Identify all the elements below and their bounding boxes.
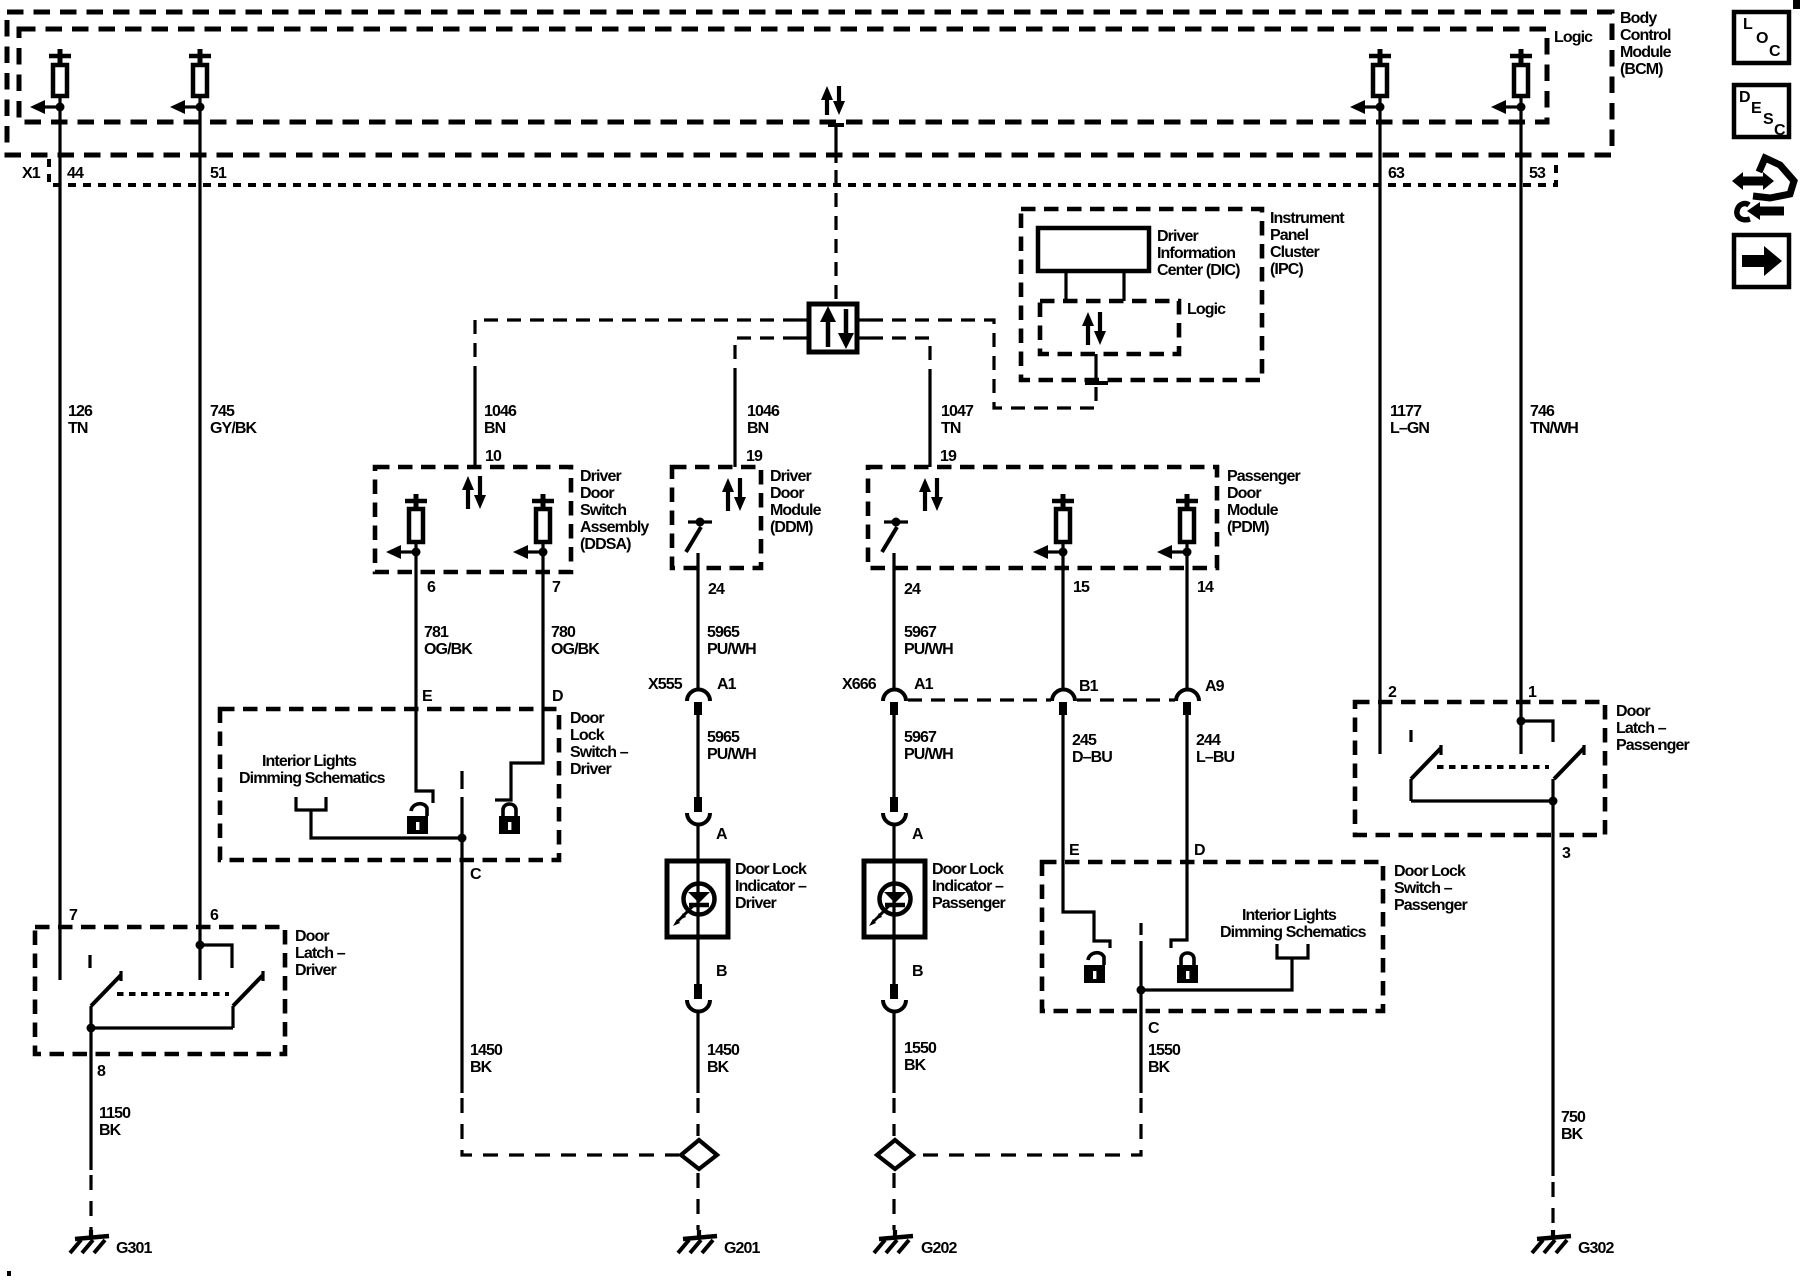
svg-text:S: S	[1763, 111, 1774, 128]
BCM driver output 4 (pin 53)	[1491, 49, 1532, 114]
wire 245 D-BU upper (PDM 15 to B1)	[1063, 552, 1112, 766]
svg-text:Indicator –: Indicator –	[932, 878, 1004, 895]
svg-text:24: 24	[708, 581, 725, 598]
Driver Information Center (DIC) display	[1038, 228, 1240, 279]
latch passenger contact stub	[1409, 730, 1412, 742]
IPC Logic dashed box	[1040, 301, 1226, 354]
passenger switch D contact (lock)	[1171, 862, 1187, 948]
svg-text:750: 750	[1561, 1109, 1586, 1126]
wire 1450 BK (switch C to splice)	[462, 860, 679, 1155]
svg-text:Module: Module	[1227, 502, 1279, 519]
svg-text:BK: BK	[904, 1057, 927, 1074]
closed padlock (passenger lock)	[1177, 953, 1198, 983]
BCM driver output 2 (pin 51)	[170, 49, 211, 114]
svg-text:BN: BN	[747, 420, 769, 437]
ground lead G201	[696, 1173, 699, 1230]
svg-text:D: D	[1739, 89, 1750, 106]
serial data junction box	[797, 304, 869, 352]
svg-text:G301: G301	[116, 1240, 153, 1257]
ground G202	[874, 1230, 958, 1257]
svg-text:44: 44	[67, 165, 84, 182]
latch driver pin 6 lead with tap	[196, 907, 233, 980]
wire 245 D-BU lower (B1 to switch E)	[1061, 715, 1064, 862]
svg-text:GY/BK: GY/BK	[210, 420, 258, 437]
svg-text:Door Lock: Door Lock	[735, 861, 807, 878]
svg-text:1550: 1550	[904, 1040, 937, 1057]
serial data wire from BCM logic	[828, 125, 844, 302]
DDM lock switch	[686, 518, 712, 569]
svg-text:3: 3	[1562, 845, 1571, 862]
svg-text:(IPC): (IPC)	[1270, 261, 1303, 278]
svg-text:D: D	[552, 688, 563, 705]
svg-text:Center (DIC): Center (DIC)	[1157, 262, 1240, 279]
svg-text:PU/WH: PU/WH	[707, 641, 756, 658]
wire 781 OG/BK (DDSA 6 to switch E)	[416, 552, 473, 709]
svg-text:Driver: Driver	[1157, 228, 1199, 245]
driver switch D contact (lock)	[495, 709, 543, 800]
svg-text:G201: G201	[724, 1240, 761, 1257]
svg-text:L–BU: L–BU	[1196, 749, 1235, 766]
svg-text:Latch –: Latch –	[295, 945, 346, 962]
svg-text:244: 244	[1196, 732, 1221, 749]
serial data bus to PDM (1047 TN)	[869, 338, 974, 467]
svg-text:Passenger: Passenger	[1227, 468, 1301, 485]
Door Lock Switch - Passenger dashed box	[1042, 862, 1468, 1011]
DIC to IPC logic stubs	[1066, 271, 1124, 301]
svg-text:Door: Door	[770, 485, 804, 502]
schematic navigation squiggle icon	[1732, 158, 1794, 220]
page corner dot	[7, 1271, 11, 1276]
wire BCM 63 to door latch passenger pin 2	[1378, 107, 1381, 702]
svg-text:BN: BN	[484, 420, 506, 437]
latch mechanical link (driver)	[117, 992, 229, 996]
Door Latch - Passenger dashed box	[1355, 702, 1690, 835]
svg-text:245: 245	[1072, 732, 1097, 749]
svg-text:(DDM): (DDM)	[770, 519, 813, 536]
svg-text:Latch –: Latch –	[1616, 720, 1667, 737]
svg-text:Switch: Switch	[580, 502, 626, 519]
svg-text:5967: 5967	[904, 729, 937, 746]
svg-text:D: D	[1194, 842, 1205, 859]
Door Lock Indicator - Driver	[667, 861, 807, 937]
svg-text:5965: 5965	[707, 624, 740, 641]
X1 connector strip	[22, 159, 1556, 185]
svg-text:1550: 1550	[1148, 1042, 1181, 1059]
wire BCM 53 to door latch passenger pin 1	[1519, 107, 1522, 702]
svg-text:BK: BK	[707, 1059, 730, 1076]
connector X666 pin A1	[842, 676, 934, 715]
PDM driver output 2 (pin 14)	[1157, 494, 1198, 559]
svg-text:Door: Door	[570, 710, 604, 727]
svg-text:1046: 1046	[484, 403, 517, 420]
DDSA driver output 2 (pin 7)	[513, 494, 554, 559]
wire BCM 44 to door latch driver pin 7	[58, 107, 61, 927]
svg-text:Logic: Logic	[1187, 301, 1226, 318]
ground lead G202	[892, 1173, 895, 1230]
wire label 745 GY/BK	[210, 403, 258, 437]
BCM serial data bidirectional arrows	[821, 86, 845, 115]
svg-text:8: 8	[97, 1063, 106, 1080]
svg-text:OG/BK: OG/BK	[424, 641, 473, 658]
interior lights dimming note (passenger)	[1141, 907, 1367, 990]
svg-text:G202: G202	[921, 1240, 958, 1257]
IPC logic serial arrows	[1082, 312, 1106, 345]
PDM driver output 1 (pin 15)	[1033, 494, 1074, 559]
connector alignment dashed line X666	[908, 698, 1051, 701]
svg-text:Door Lock: Door Lock	[1394, 863, 1466, 880]
svg-text:BK: BK	[470, 1059, 493, 1076]
svg-text:746: 746	[1530, 403, 1555, 420]
svg-text:BK: BK	[99, 1122, 122, 1139]
svg-text:Module: Module	[1620, 44, 1672, 61]
connector A (passenger indicator)	[883, 797, 924, 843]
latch passenger pin 2 lead	[1380, 684, 1397, 754]
wire 244 L-BU lower (A9 to switch D)	[1185, 715, 1188, 862]
latch driver switch right	[233, 971, 263, 1028]
IPC logic output stub	[1085, 354, 1108, 383]
svg-text:10: 10	[485, 448, 502, 465]
svg-text:Driver: Driver	[735, 895, 777, 912]
svg-text:PU/WH: PU/WH	[904, 746, 953, 763]
svg-text:Lock: Lock	[570, 727, 605, 744]
svg-text:B: B	[912, 963, 923, 980]
wire 5967 PU/WH upper (PDM 24 to X666)	[894, 568, 953, 689]
DDSA driver output 1 (pin 6)	[386, 494, 427, 559]
svg-text:OG/BK: OG/BK	[551, 641, 600, 658]
driver switch E contact (unlock)	[416, 709, 433, 803]
svg-text:E: E	[422, 688, 433, 705]
wire 1550 BK (switch C to splice)	[911, 1011, 1181, 1155]
LOC legend icon	[1734, 12, 1789, 63]
svg-text:PU/WH: PU/WH	[904, 641, 953, 658]
open padlock (passenger unlock)	[1084, 953, 1105, 983]
ground G201	[678, 1230, 761, 1257]
wire label 126 TN	[68, 403, 93, 437]
latch driver pin 7 lead	[60, 907, 78, 980]
PDM lock switch	[882, 518, 908, 569]
svg-text:C: C	[1148, 1020, 1160, 1037]
svg-text:Door Lock: Door Lock	[932, 861, 1004, 878]
svg-text:Passenger: Passenger	[1616, 737, 1690, 754]
svg-text:C: C	[470, 866, 482, 883]
svg-text:Interior Lights: Interior Lights	[262, 753, 357, 770]
serial data bus to IPC	[869, 320, 1096, 408]
ground G302	[1532, 1230, 1615, 1257]
svg-text:Panel: Panel	[1270, 227, 1309, 244]
svg-text:O: O	[1756, 30, 1768, 47]
svg-text:1177: 1177	[1390, 403, 1422, 420]
svg-text:C: C	[1769, 43, 1781, 60]
wire label 1177 L-GN	[1390, 403, 1429, 437]
svg-text:780: 780	[551, 624, 576, 641]
svg-text:Control: Control	[1620, 27, 1671, 44]
wire BCM 51 to door latch driver pin 6	[198, 107, 201, 927]
svg-text:1: 1	[1528, 684, 1537, 701]
connector X555 pin A1	[648, 676, 737, 715]
svg-text:51: 51	[210, 165, 227, 182]
latch passenger switch left	[1411, 745, 1441, 801]
svg-text:A9: A9	[1205, 678, 1225, 695]
connector B (passenger indicator)	[883, 937, 923, 1012]
svg-text:2: 2	[1388, 684, 1397, 701]
svg-text:Switch –: Switch –	[570, 744, 629, 761]
svg-text:BK: BK	[1561, 1126, 1584, 1143]
svg-text:X555: X555	[648, 676, 683, 693]
svg-text:Assembly: Assembly	[580, 519, 649, 536]
svg-text:A1: A1	[914, 676, 934, 693]
BCM driver output 1 (pin 44)	[30, 49, 71, 114]
svg-text:5967: 5967	[904, 624, 937, 641]
svg-text:745: 745	[210, 403, 235, 420]
page corner mark	[1793, 0, 1800, 9]
latch passenger common wire	[1411, 797, 1558, 806]
svg-text:Driver: Driver	[580, 468, 622, 485]
svg-text:D–BU: D–BU	[1072, 749, 1112, 766]
serial data bus to DDSA (1046 BN)	[475, 320, 797, 467]
svg-text:B: B	[716, 963, 727, 980]
svg-text:B1: B1	[1079, 678, 1099, 695]
Door Latch - Driver dashed box	[35, 927, 346, 1054]
svg-text:Driver: Driver	[570, 761, 612, 778]
passenger switch C output	[1137, 923, 1161, 1037]
svg-text:126: 126	[68, 403, 93, 420]
svg-text:L–GN: L–GN	[1390, 420, 1429, 437]
svg-text:Driver: Driver	[770, 468, 812, 485]
svg-text:Dimming Schematics: Dimming Schematics	[239, 770, 386, 787]
svg-text:Door: Door	[1616, 703, 1650, 720]
svg-text:Information: Information	[1157, 245, 1235, 262]
svg-text:Cluster: Cluster	[1270, 244, 1319, 261]
svg-text:1150: 1150	[99, 1105, 131, 1122]
wire 5965 PU/WH upper (DDM 24 to X555)	[698, 568, 756, 689]
svg-text:E: E	[1069, 842, 1080, 859]
svg-text:Dimming Schematics: Dimming Schematics	[1220, 924, 1367, 941]
svg-text:X666: X666	[842, 676, 877, 693]
wire 1550 BK (indicator B to splice)	[894, 1011, 937, 1136]
Door Lock Switch - Driver dashed box	[220, 709, 629, 860]
svg-text:19: 19	[746, 448, 763, 465]
svg-text:(BCM): (BCM)	[1620, 61, 1663, 78]
svg-text:1046: 1046	[747, 403, 780, 420]
svg-text:(PDM): (PDM)	[1227, 519, 1269, 536]
wire label 746 TN/WH	[1530, 403, 1578, 437]
svg-text:Driver: Driver	[295, 962, 337, 979]
connector B (driver indicator)	[687, 937, 727, 1012]
svg-text:15: 15	[1073, 579, 1090, 596]
Door Lock Indicator - Passenger	[864, 861, 1006, 937]
latch mechanical link (passenger)	[1437, 765, 1549, 769]
Instrument Panel Cluster (IPC) dashed box	[1021, 209, 1345, 380]
svg-text:G302: G302	[1578, 1240, 1615, 1257]
Driver Door Module (DDM) dashed box	[672, 467, 822, 568]
svg-text:6: 6	[210, 907, 219, 924]
svg-text:X1: X1	[22, 165, 41, 182]
svg-text:7: 7	[69, 907, 78, 924]
svg-text:Passenger: Passenger	[1394, 897, 1468, 914]
svg-text:1450: 1450	[707, 1042, 740, 1059]
svg-text:PU/WH: PU/WH	[707, 746, 756, 763]
open padlock (driver unlock)	[407, 804, 428, 834]
connector A (driver indicator)	[687, 797, 728, 843]
svg-text:1047: 1047	[941, 403, 974, 420]
Driver Door Switch Assembly (DDSA) dashed box	[375, 467, 649, 572]
latch driver switch left	[91, 971, 121, 1028]
Passenger Door Module (PDM) dashed box	[868, 467, 1301, 568]
PDM serial arrows	[919, 478, 943, 511]
wire 5965 PU/WH lower (X555 to indicator A)	[698, 715, 756, 797]
serial data bus to DDM (1046 BN)	[735, 338, 797, 467]
svg-text:A1: A1	[717, 676, 737, 693]
splice diamond (G201)	[681, 1140, 717, 1169]
svg-text:1450: 1450	[470, 1042, 503, 1059]
passenger switch E contact (unlock)	[1063, 862, 1110, 948]
BCM Logic inner dashed box	[19, 29, 1593, 122]
latch passenger pin 3 output	[1553, 801, 1571, 862]
svg-text:Logic: Logic	[1554, 29, 1593, 46]
svg-text:781: 781	[424, 624, 449, 641]
latch driver contact stub	[88, 955, 91, 968]
wire 5967 PU/WH lower (X666 to indicator A)	[894, 715, 953, 797]
svg-text:5965: 5965	[707, 729, 740, 746]
svg-text:6: 6	[427, 579, 436, 596]
DDSA serial arrows	[462, 476, 486, 509]
svg-text:Door: Door	[295, 928, 329, 945]
svg-text:53: 53	[1529, 165, 1546, 182]
wire 244 L-BU upper (PDM 14 to A9)	[1187, 552, 1235, 766]
DDM serial arrows	[722, 478, 746, 511]
svg-text:BK: BK	[1148, 1059, 1171, 1076]
svg-text:Interior Lights: Interior Lights	[1242, 907, 1337, 924]
svg-text:14: 14	[1197, 579, 1214, 596]
svg-text:C: C	[1774, 122, 1786, 139]
svg-text:A: A	[716, 826, 728, 843]
svg-text:Passenger: Passenger	[932, 895, 1006, 912]
svg-text:Instrument: Instrument	[1270, 210, 1345, 227]
svg-text:Door: Door	[1227, 485, 1261, 502]
svg-text:24: 24	[904, 581, 921, 598]
closed padlock (driver lock)	[499, 804, 520, 834]
latch driver common wire	[87, 1024, 234, 1033]
wire 750 BK to G302	[1553, 835, 1586, 1230]
connector A9	[1176, 678, 1225, 715]
svg-text:Module: Module	[770, 502, 822, 519]
svg-text:Indicator –: Indicator –	[735, 878, 807, 895]
svg-text:TN: TN	[68, 420, 88, 437]
latch driver pin 8 output	[91, 1028, 106, 1080]
svg-text:7: 7	[552, 579, 561, 596]
BCM driver output 3 (pin 63)	[1350, 49, 1391, 114]
DESC legend icon	[1734, 85, 1789, 139]
svg-text:Body: Body	[1620, 10, 1657, 27]
svg-text:Door: Door	[580, 485, 614, 502]
svg-text:A: A	[912, 826, 924, 843]
svg-text:TN: TN	[941, 420, 961, 437]
latch passenger pin 1 lead with tap	[1517, 684, 1554, 754]
wire 1150 BK to G301	[91, 1054, 131, 1230]
svg-text:(DDSA): (DDSA)	[580, 536, 631, 553]
splice diamond (G202)	[877, 1140, 913, 1169]
ground G301	[70, 1230, 153, 1257]
BCM module label	[1620, 10, 1672, 78]
wire 1450 BK (indicator B to splice)	[698, 1011, 740, 1136]
svg-text:TN/WH: TN/WH	[1530, 420, 1578, 437]
svg-text:L: L	[1743, 16, 1753, 33]
forward arrow legend icon	[1734, 235, 1789, 287]
svg-text:19: 19	[940, 448, 957, 465]
svg-text:Switch –: Switch –	[1394, 880, 1453, 897]
wire A to door lock indicator passenger	[892, 824, 895, 861]
connector B1	[1052, 678, 1175, 715]
interior lights dimming note (driver)	[239, 753, 460, 838]
driver switch C output	[458, 771, 483, 883]
svg-text:63: 63	[1388, 165, 1405, 182]
Body Control Module (BCM) outer dashed box	[7, 12, 1612, 155]
wire A to door lock indicator driver	[696, 824, 699, 861]
svg-text:E: E	[1751, 100, 1762, 117]
wire 780 OG/BK (DDSA 7 to switch D)	[543, 552, 600, 709]
latch passenger switch right	[1553, 745, 1584, 801]
